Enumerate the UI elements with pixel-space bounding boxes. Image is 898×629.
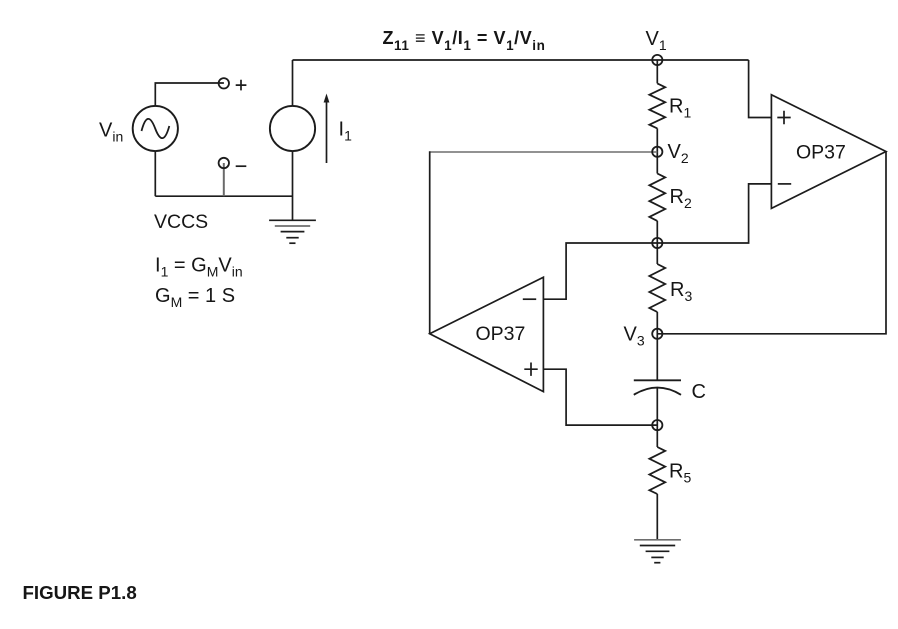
resistor R1 bbox=[649, 83, 665, 128]
wire minus terminal stub bbox=[223, 163, 225, 196]
wire bottom rail bbox=[155, 195, 292, 197]
wire top rail from VCCS to op-amp branch bbox=[293, 59, 749, 61]
svg-text:C: C bbox=[692, 381, 706, 403]
wire Vin top lead to plus terminal bbox=[155, 83, 224, 106]
wire capacitor to node bbox=[656, 388, 658, 447]
wire R1 to V2 bbox=[656, 128, 658, 173]
svg-text:FIGURE P1.8: FIGURE P1.8 bbox=[23, 582, 137, 603]
wire VCCS to ground bbox=[292, 151, 294, 220]
capacitor C bbox=[634, 380, 681, 395]
op-amp U1 bbox=[771, 95, 886, 209]
svg-text:I1 = GMVin: I1 = GMVin bbox=[155, 255, 243, 280]
svg-text:GM = 1 S: GM = 1 S bbox=[155, 285, 235, 310]
wire U2 plus input to lower node bbox=[543, 369, 657, 425]
node below capacitor bbox=[652, 420, 662, 430]
wire R2 to junction bbox=[656, 221, 658, 264]
wire V2 feedback to U2 output bbox=[431, 151, 658, 153]
ground below VCCS bbox=[269, 220, 316, 243]
wire VCCS riser to top rail bbox=[292, 60, 294, 106]
wire op-amp U1 plus input drop bbox=[749, 60, 772, 118]
terminal - bbox=[219, 158, 229, 168]
op-amp U2 bbox=[430, 277, 544, 391]
svg-text:OP37: OP37 bbox=[796, 142, 846, 164]
node V1 bbox=[652, 55, 662, 65]
wire U1 output down to V3 bbox=[657, 152, 886, 334]
node V3 bbox=[652, 329, 662, 339]
wire ladder V1 to R1 bbox=[656, 60, 658, 83]
svg-text:OP37: OP37 bbox=[476, 323, 526, 345]
terminal + bbox=[219, 78, 229, 88]
wire junction to U2 minus input bbox=[543, 243, 657, 299]
node junction R2-R3 bbox=[652, 238, 662, 248]
VCCS source circle bbox=[270, 106, 315, 151]
resistor R3 bbox=[649, 264, 665, 312]
wire junction to U1 minus input bbox=[657, 184, 771, 243]
svg-text:VCCS: VCCS bbox=[154, 211, 208, 233]
wire Vin bottom lead bbox=[154, 151, 156, 196]
ground below R5 bbox=[634, 540, 681, 563]
node V2 bbox=[652, 147, 662, 157]
arrow I1 bbox=[326, 101, 328, 163]
wire R5 to ground bbox=[656, 494, 658, 539]
resistor R2 bbox=[649, 174, 665, 221]
wire R3 to V3 bbox=[656, 312, 658, 380]
resistor R5 bbox=[649, 447, 665, 494]
voltage source Vin bbox=[133, 106, 178, 151]
